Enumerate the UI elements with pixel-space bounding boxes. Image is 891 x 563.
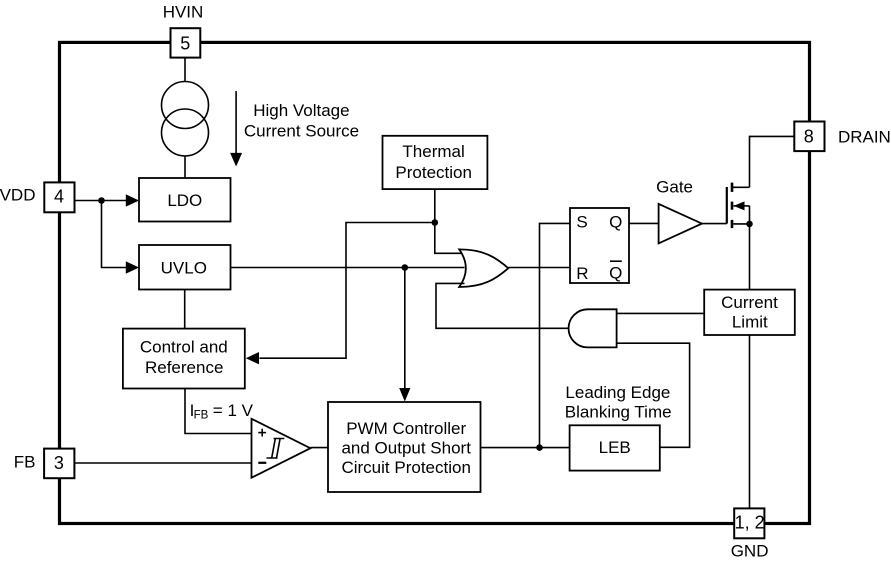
MOSFET body arrow bbox=[734, 205, 750, 207]
current source circle bottom bbox=[162, 109, 209, 156]
svg-text:FB: FB bbox=[14, 452, 36, 471]
pin 1,2 GND bbox=[734, 508, 764, 538]
MOSFET channel segments bbox=[731, 183, 734, 192]
node source junction bbox=[746, 221, 753, 228]
high voltage current source arrow bbox=[235, 91, 237, 153]
svg-text:= 1 V: = 1 V bbox=[213, 401, 254, 420]
pin 4 VDD bbox=[44, 182, 74, 212]
svg-text:HVIN: HVIN bbox=[163, 2, 204, 21]
svg-text:PWM Controller: PWM Controller bbox=[346, 419, 466, 438]
svg-text:and Output Short: and Output Short bbox=[341, 439, 471, 458]
comparator hysteresis symbol bbox=[267, 439, 285, 459]
block Control and Reference bbox=[123, 329, 245, 389]
block LEB bbox=[570, 425, 660, 470]
svg-text:FB: FB bbox=[194, 410, 209, 422]
pin 3 FB bbox=[44, 449, 74, 479]
svg-text:Circuit Protection: Circuit Protection bbox=[341, 458, 470, 477]
comparator plus sign bbox=[258, 432, 266, 434]
or-gate U2 bbox=[459, 249, 508, 287]
wire Control bottom to comparator plus input bbox=[185, 389, 252, 434]
op-amp comparator bbox=[252, 419, 311, 478]
IC outline border bbox=[60, 42, 810, 523]
wire driver to MOSFET gate bbox=[702, 223, 727, 225]
svg-text:Leading Edge: Leading Edge bbox=[565, 383, 670, 402]
wire drain to pin 8 bbox=[750, 136, 795, 187]
block UVLO bbox=[139, 245, 231, 290]
pin 8 DRAIN bbox=[794, 122, 824, 152]
wire LEB output to AND input bbox=[617, 343, 690, 447]
wire Current Limit to AND input bbox=[617, 312, 705, 314]
svg-text:UVLO: UVLO bbox=[161, 259, 207, 278]
svg-text:4: 4 bbox=[54, 186, 64, 206]
comparator minus sign bbox=[258, 462, 266, 464]
svg-text:Reference: Reference bbox=[145, 358, 223, 377]
svg-text:3: 3 bbox=[54, 453, 64, 473]
wire thermal to OR top input with junction bbox=[435, 189, 465, 253]
wire PWM output to LEB bbox=[481, 447, 570, 449]
svg-text:Current: Current bbox=[721, 293, 778, 312]
wire VDD pin to LDO with junction bbox=[75, 200, 127, 202]
svg-text:VDD: VDD bbox=[0, 186, 36, 205]
svg-text:R: R bbox=[576, 264, 588, 283]
and-gate U3 bbox=[569, 309, 617, 347]
svg-text:GND: GND bbox=[731, 542, 769, 561]
wire Q output to gate driver bbox=[629, 222, 659, 224]
svg-text:1, 2: 1, 2 bbox=[735, 513, 765, 533]
wire FB pin to comparator minus input bbox=[74, 462, 251, 464]
svg-text:Protection: Protection bbox=[395, 163, 472, 182]
svg-text:LDO: LDO bbox=[167, 191, 202, 210]
pin 5 HVIN bbox=[171, 28, 201, 57]
wire junction down to PWM arrow bbox=[404, 268, 406, 389]
wire UVLO output to OR gate bbox=[231, 267, 465, 269]
Q-bar overbar bbox=[610, 260, 622, 262]
block PWM Controller bbox=[328, 402, 481, 492]
wire source to current limit bbox=[749, 224, 751, 290]
svg-text:S: S bbox=[576, 212, 587, 231]
svg-text:Thermal: Thermal bbox=[402, 142, 464, 161]
node thermal junction bbox=[432, 219, 439, 226]
transistor MOSFET gate bar bbox=[726, 187, 728, 224]
svg-text:DRAIN: DRAIN bbox=[838, 127, 891, 146]
node UVLO line junction bbox=[402, 264, 409, 271]
wire junction up to S input bbox=[540, 223, 571, 447]
block LDO bbox=[139, 178, 231, 222]
block Current Limit bbox=[704, 290, 795, 335]
current source circle top bbox=[162, 82, 209, 129]
svg-text:Q: Q bbox=[609, 264, 622, 283]
wire body to source bbox=[749, 206, 751, 224]
MOSFET drain stub bbox=[732, 186, 750, 188]
wire AND output to OR bottom input bbox=[436, 283, 569, 328]
wire UVLO to Control and Reference bbox=[184, 290, 186, 329]
svg-text:Limit: Limit bbox=[732, 312, 768, 331]
svg-text:5: 5 bbox=[180, 33, 190, 53]
wire HVIN pin to current source bbox=[184, 58, 186, 82]
svg-text:LEB: LEB bbox=[599, 438, 631, 457]
wire current source to LDO bbox=[184, 156, 186, 178]
node VDD junction bbox=[98, 197, 105, 204]
wire comparator output to PWM bbox=[310, 447, 328, 449]
wire VDD junction to UVLO bbox=[102, 201, 127, 268]
node PWM output junction bbox=[536, 444, 543, 451]
svg-text:Blanking Time: Blanking Time bbox=[565, 403, 672, 422]
wire OR output to R input bbox=[508, 267, 570, 269]
svg-text:8: 8 bbox=[804, 127, 814, 147]
svg-text:High Voltage: High Voltage bbox=[253, 101, 349, 120]
svg-text:Gate: Gate bbox=[656, 177, 693, 196]
svg-text:Q: Q bbox=[609, 212, 622, 231]
MOSFET source stub bbox=[732, 223, 750, 225]
svg-text:Control and: Control and bbox=[140, 338, 228, 357]
wire thermal junction to Control and Reference arrow bbox=[260, 223, 435, 359]
svg-text:Current Source: Current Source bbox=[244, 121, 359, 140]
flip-flop latch bbox=[570, 208, 629, 283]
wire current limit to GND pin bbox=[749, 335, 751, 508]
block Thermal Protection bbox=[383, 136, 488, 189]
gate driver buffer bbox=[659, 204, 702, 244]
